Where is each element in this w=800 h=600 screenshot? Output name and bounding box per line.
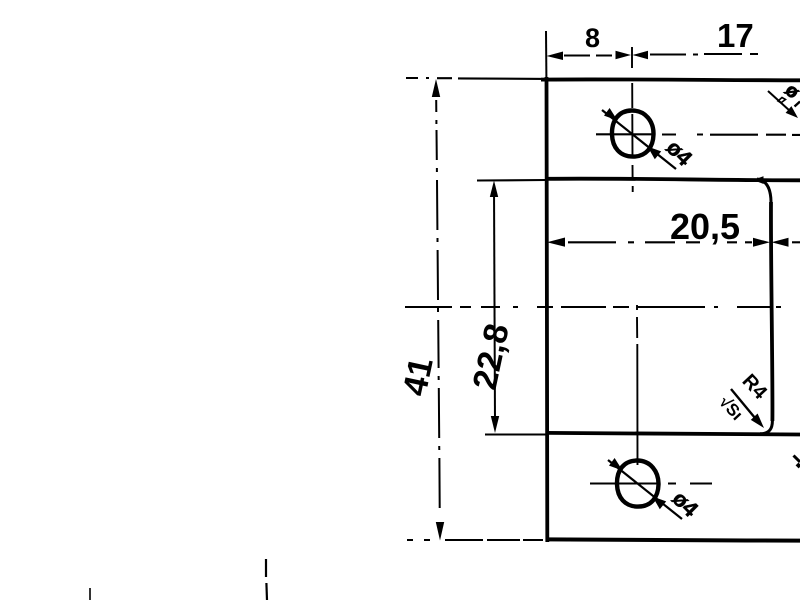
svg-text:8: 8	[585, 23, 600, 53]
top-right partial callout arrowhead	[786, 106, 798, 118]
svg-text:17: 17	[717, 17, 754, 54]
top hole leader arrowhead lower-right	[648, 147, 662, 160]
corner radius leader line R4	[731, 389, 760, 424]
dimension 8 line	[564, 54, 612, 56]
svg-text:ø4: ø4	[661, 135, 697, 171]
right edge partial glyph (clipped stroke)	[794, 456, 800, 463]
cutout top-right corner arc	[757, 179, 771, 202]
dimension 17 line	[650, 53, 758, 56]
top-right callout clipped tick	[795, 102, 800, 107]
dimension 22,8 bottom extension line	[485, 433, 547, 435]
dimension 20,5 line	[568, 241, 752, 243]
svg-text:22,8: 22,8	[466, 320, 517, 393]
bottom hole circle	[617, 460, 659, 506]
dimension 17 left arrow	[633, 51, 649, 59]
bottom hole leader arrowhead upper-left	[609, 458, 623, 471]
dimension 20,5 right arrow	[753, 238, 770, 247]
chain dimension stub line	[792, 241, 800, 243]
top hole circle	[612, 110, 654, 156]
dimension 22,8 top arrow	[490, 181, 498, 198]
svg-text:R4: R4	[738, 370, 772, 404]
svg-text:20,5: 20,5	[670, 206, 740, 247]
bottom hole vertical centerline	[636, 305, 639, 465]
stray mark vertical segment lower	[265, 583, 268, 600]
dimension 22,8 top extension line	[477, 179, 546, 182]
svg-text:ø4: ø4	[667, 486, 703, 522]
top-right callout small loop mark	[778, 98, 786, 103]
plate bottom edge	[546, 539, 800, 540]
svg-text:41: 41	[396, 354, 441, 399]
bottom hole leader arrowhead lower-right	[653, 497, 667, 510]
bottom hole diameter leader line	[608, 460, 682, 519]
dimension 8 right arrow	[616, 51, 632, 59]
dimension 8 left arrow	[547, 52, 564, 61]
top-right partial callout leader	[768, 91, 790, 111]
horizontal center axis of plate	[405, 306, 781, 308]
top hole leader arrowhead upper-left	[604, 108, 618, 121]
plate left edge extension above top	[545, 31, 547, 78]
dimension 22,8 vertical line	[494, 186, 495, 424]
cutout right edge	[771, 202, 773, 421]
dimension 41 vertical line	[436, 100, 440, 508]
bottom hole horizontal centerline	[590, 482, 712, 484]
plate top edge	[541, 78, 800, 83]
plate left edge	[544, 77, 549, 542]
cutout top edge	[546, 179, 800, 181]
svg-text:√Sı: √Sı	[715, 392, 746, 424]
corner radius leader arrowhead	[751, 414, 764, 429]
ink blob arrow on cutout top edge near corner	[753, 176, 764, 184]
right edge partial glyph dot	[797, 464, 800, 467]
dimension 41 top arrow	[432, 79, 440, 97]
top hole horizontal centerline	[596, 133, 800, 136]
stray mark vertical segment upper	[265, 559, 267, 577]
top hole vertical centerline	[631, 47, 634, 192]
dimension 22,8 bottom arrow	[491, 416, 499, 433]
dimension 20,5 left arrow	[547, 238, 565, 247]
dimension 41 bottom arrow	[436, 522, 444, 541]
cutout bottom edge	[546, 433, 800, 435]
stray tick bottom left	[89, 588, 91, 600]
dimension 41 bottom extension line	[407, 539, 543, 541]
cutout bottom-right corner arc	[760, 421, 772, 434]
dimension 41 top extension line	[406, 77, 546, 80]
top hole diameter leader line	[602, 110, 676, 169]
chain dimension opposing arrow at cutout edge	[772, 238, 789, 247]
